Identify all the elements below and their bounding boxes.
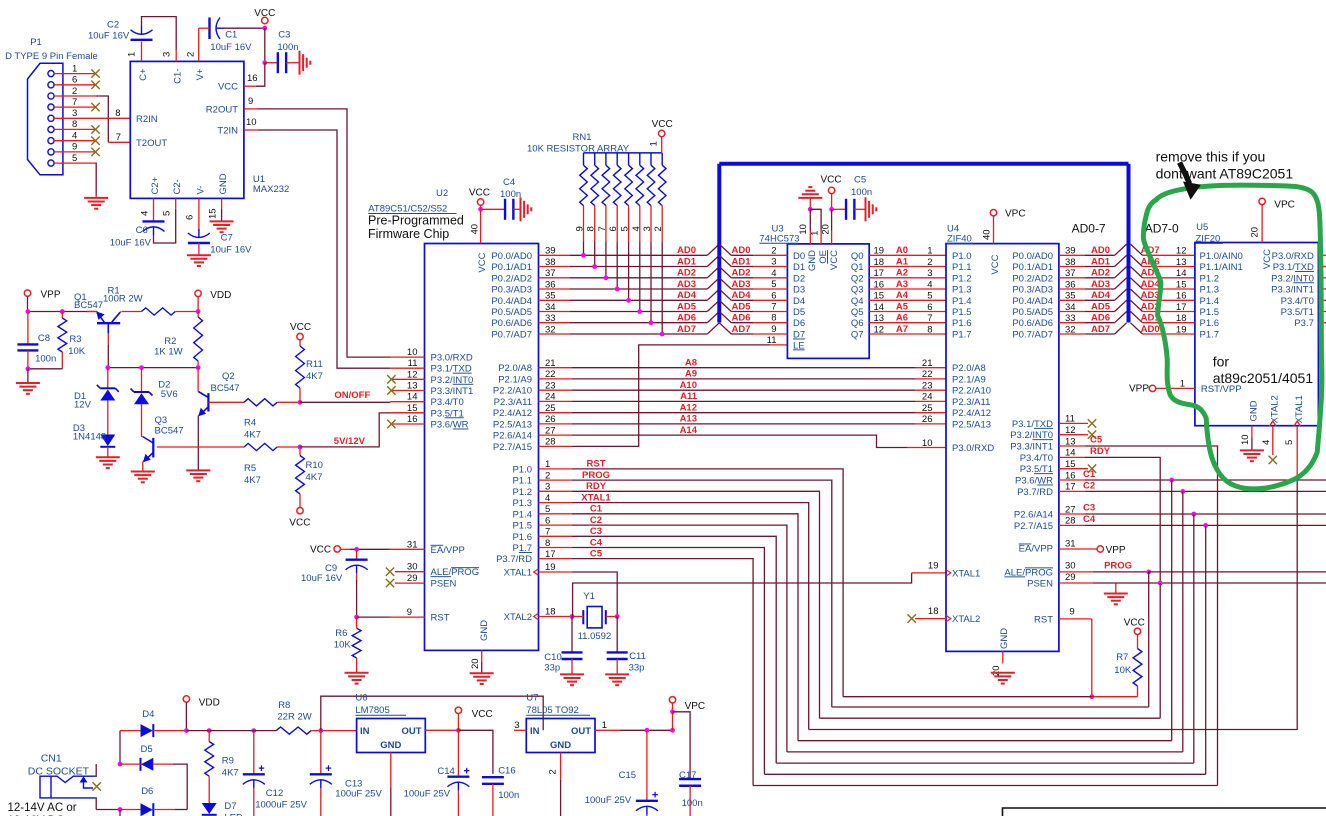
U3 top pin 10 GND with inverted ground bbox=[798, 187, 822, 198]
vertical below D6 node bbox=[119, 810, 121, 816]
svg-text:10K: 10K bbox=[68, 346, 86, 357]
svg-text:PSEN: PSEN bbox=[431, 579, 457, 590]
bus entry AD1 U4 side bbox=[1115, 255, 1127, 266]
U2 pin 28 P2.7/A15 bbox=[539, 445, 572, 447]
bus entry AD3 U4 side bbox=[1115, 278, 1127, 289]
svg-text:12V: 12V bbox=[74, 400, 92, 411]
wire VCC node to U1 pin16 bbox=[256, 63, 265, 86]
svg-text:6: 6 bbox=[927, 302, 932, 313]
junction D1 bbox=[105, 365, 110, 370]
wire OUT to C16 branch bbox=[458, 730, 493, 774]
svg-text:Q3: Q3 bbox=[155, 415, 168, 426]
resistor R9 4K7 bbox=[208, 731, 210, 742]
capacitor C2 10uF 16V bbox=[131, 39, 153, 41]
Q3 base wire + resistor R5 4K7 bbox=[157, 446, 244, 448]
junction crystal left bbox=[570, 614, 575, 619]
svg-text:Q7: Q7 bbox=[851, 330, 864, 341]
RN1 resistor leg pin 4 bbox=[639, 153, 641, 165]
svg-text:7: 7 bbox=[72, 97, 77, 108]
Q2 base wire + resistor R4 4K7 bbox=[208, 401, 244, 403]
svg-text:1: 1 bbox=[810, 231, 821, 236]
Q1 base wire down bbox=[107, 324, 109, 333]
svg-text:+: + bbox=[325, 763, 331, 775]
U3 Q2 pin 17 wire A2 to U4 pin 3 bbox=[869, 277, 946, 279]
U3 Q1 pin 18 wire A1 to U4 pin 2 bbox=[869, 266, 946, 268]
svg-text:17: 17 bbox=[874, 268, 885, 279]
svg-text:AD4: AD4 bbox=[677, 290, 697, 301]
no-connect X on CN1 bbox=[93, 782, 101, 790]
svg-text:35: 35 bbox=[545, 291, 556, 302]
bus entry AD0 U4 side bbox=[1115, 244, 1127, 255]
junction RN1 leg to AD wire bbox=[615, 287, 620, 292]
U3 Q5 pin 14 wire A5 to U4 pin 6 bbox=[869, 311, 946, 313]
svg-text:AD4: AD4 bbox=[732, 290, 752, 301]
latch U3 74HC573 box bbox=[787, 244, 869, 359]
net C2 bundle row bbox=[787, 751, 1183, 753]
wire AD6 to U5 pin 13 bbox=[1143, 266, 1195, 268]
U2 pin 29 PSEN bbox=[395, 582, 425, 584]
svg-text:VCC: VCC bbox=[469, 188, 490, 199]
bus entry AD5 left bbox=[707, 300, 719, 311]
svg-text:D5: D5 bbox=[793, 307, 805, 318]
junction C8 bottom bbox=[26, 366, 31, 371]
bus entry AD1 right bbox=[719, 255, 731, 266]
svg-text:P1.7: P1.7 bbox=[512, 543, 532, 554]
svg-text:+: + bbox=[258, 763, 264, 775]
microcontroller U2 AT89C51 box bbox=[425, 244, 539, 651]
AC node vertical D4-D5 bbox=[119, 731, 121, 765]
svg-text:C10: C10 bbox=[544, 652, 561, 663]
svg-text:100n: 100n bbox=[851, 187, 872, 198]
net C2 wire from U4 pin17 bbox=[1085, 490, 1326, 492]
black annotation arrow bbox=[1180, 163, 1190, 184]
bus entry AD5 right bbox=[719, 300, 731, 311]
svg-text:8: 8 bbox=[115, 108, 120, 119]
U1 pin 16 VCC bbox=[244, 85, 256, 87]
wire C1 left to V+ bbox=[199, 27, 210, 29]
svg-text:P1.6: P1.6 bbox=[952, 318, 972, 329]
U1 pin 1 C+ bbox=[141, 42, 143, 62]
svg-text:R2OUT: R2OUT bbox=[206, 104, 238, 115]
svg-text:P0.2/AD2: P0.2/AD2 bbox=[1012, 273, 1053, 284]
bus entry AD4 right bbox=[719, 289, 731, 300]
svg-text:4: 4 bbox=[927, 279, 932, 290]
bus entry AD6 right bbox=[719, 312, 731, 323]
U5 right stub bbox=[1318, 288, 1326, 290]
wire AD5 to U3 D5 pin 7 bbox=[731, 311, 753, 313]
net RST bundle row bbox=[843, 696, 1092, 698]
svg-text:12-14V AC or: 12-14V AC or bbox=[8, 802, 77, 814]
U1 pin 2 V+ bbox=[198, 28, 200, 61]
wire AD3 to U3 D3 pin 5 bbox=[731, 288, 753, 290]
junction RN1 leg to AD wire bbox=[660, 332, 665, 337]
svg-text:A0: A0 bbox=[896, 245, 908, 256]
U2 pin 10 bbox=[390, 356, 424, 358]
svg-text:P3.3/INT1: P3.3/INT1 bbox=[1010, 442, 1053, 453]
svg-text:7: 7 bbox=[927, 313, 932, 324]
svg-text:P3.4/T0: P3.4/T0 bbox=[1020, 453, 1053, 464]
U2 pin 30 ALE/PROG bbox=[395, 571, 425, 573]
svg-text:7: 7 bbox=[597, 226, 608, 231]
PROG wire to right edge bbox=[1149, 571, 1326, 573]
svg-text:VPC: VPC bbox=[1005, 209, 1026, 220]
svg-text:P3.1/TXD: P3.1/TXD bbox=[1012, 419, 1053, 430]
wire AD5 to bus bbox=[570, 311, 707, 313]
svg-text:P2.6/A14: P2.6/A14 bbox=[1014, 510, 1053, 521]
svg-text:P3.7/RD: P3.7/RD bbox=[496, 554, 532, 565]
svg-text:VCC: VCC bbox=[821, 175, 842, 186]
svg-text:P1.0/AIN0: P1.0/AIN0 bbox=[1200, 251, 1243, 262]
svg-text:100uF 25V: 100uF 25V bbox=[404, 789, 451, 800]
svg-text:AD7: AD7 bbox=[732, 324, 751, 335]
net PROG bundle row bbox=[832, 706, 1149, 708]
svg-text:P0.0/AD0: P0.0/AD0 bbox=[1012, 251, 1053, 262]
svg-text:4: 4 bbox=[1261, 440, 1272, 445]
U5 right stub bbox=[1318, 311, 1326, 313]
svg-text:5V/12V: 5V/12V bbox=[334, 436, 366, 447]
svg-text:for: for bbox=[1213, 354, 1230, 370]
svg-text:RDY: RDY bbox=[1090, 446, 1111, 457]
svg-text:XTAL1: XTAL1 bbox=[1294, 395, 1305, 423]
junction AC/D5 bbox=[118, 762, 123, 767]
svg-text:C5: C5 bbox=[854, 175, 866, 186]
svg-text:22: 22 bbox=[922, 369, 933, 380]
ground for P1 pin 5 bbox=[84, 198, 108, 209]
svg-text:VCC: VCC bbox=[829, 250, 840, 270]
bus entry AD3 left bbox=[707, 278, 719, 289]
U3 Q6 pin 13 wire A6 to U4 pin 7 bbox=[869, 322, 946, 324]
svg-text:OUT: OUT bbox=[571, 726, 591, 737]
svg-text:P2.6/A14: P2.6/A14 bbox=[493, 431, 532, 442]
terminal VPC above U5 bbox=[1259, 198, 1265, 204]
U2 pin 14 bbox=[390, 401, 424, 403]
svg-text:P2.2/A10: P2.2/A10 bbox=[952, 386, 991, 397]
svg-text:AD0-7: AD0-7 bbox=[1072, 222, 1106, 236]
junction R4/R11 bbox=[298, 400, 303, 405]
svg-text:P2.2/A10: P2.2/A10 bbox=[493, 386, 532, 397]
U5 right stub bbox=[1318, 254, 1326, 256]
ground under U5 bbox=[1240, 450, 1264, 461]
P1 pin 8 stub bbox=[54, 128, 96, 130]
svg-text:3: 3 bbox=[514, 720, 519, 731]
wire A15 from U2 to U3 LE bbox=[572, 345, 770, 447]
svg-text:AD0: AD0 bbox=[732, 245, 751, 256]
bus entry AD2 U4 side bbox=[1115, 267, 1127, 278]
svg-text:Q6: Q6 bbox=[851, 318, 864, 329]
svg-text:VCC: VCC bbox=[289, 517, 310, 528]
svg-text:17: 17 bbox=[1176, 302, 1187, 313]
U1 pin 3 C1- bbox=[175, 50, 177, 61]
svg-text:18: 18 bbox=[1176, 313, 1187, 324]
svg-text:P1.3: P1.3 bbox=[512, 498, 532, 509]
svg-text:AD2: AD2 bbox=[677, 268, 696, 279]
svg-text:P1.5: P1.5 bbox=[1200, 307, 1220, 318]
svg-text:12: 12 bbox=[407, 369, 418, 380]
svg-text:GND: GND bbox=[550, 740, 571, 751]
U3 Q7 pin 12 wire A7 to U4 pin 8 bbox=[869, 333, 946, 335]
svg-text:VCC: VCC bbox=[990, 254, 1001, 274]
svg-text:34: 34 bbox=[545, 302, 556, 313]
svg-text:6: 6 bbox=[72, 75, 77, 86]
svg-text:19: 19 bbox=[928, 561, 939, 572]
svg-text:C6: C6 bbox=[136, 225, 148, 236]
svg-text:AD7: AD7 bbox=[1091, 324, 1110, 335]
P1 pin 5 stub bbox=[54, 162, 96, 164]
Q2 emitter to ground bbox=[197, 416, 199, 471]
net C5 wire to lower bundle bbox=[572, 559, 753, 786]
svg-text:P1.4: P1.4 bbox=[512, 509, 532, 520]
svg-text:Firmware Chip: Firmware Chip bbox=[368, 227, 449, 241]
U2 pin 33 P0.6/AD6 bbox=[539, 322, 571, 324]
svg-text:VCC: VCC bbox=[472, 709, 493, 720]
net C4 wire to lower bundle bbox=[572, 548, 765, 775]
U3 top pin 20 VCC bbox=[828, 187, 834, 193]
wire CN1 bottom to D6 bbox=[96, 809, 120, 811]
svg-text:U2: U2 bbox=[436, 188, 448, 199]
U2 pin 35 P0.4/AD4 bbox=[539, 299, 571, 301]
svg-text:78L05 TO92: 78L05 TO92 bbox=[526, 705, 578, 716]
wire AD1 to U3 D1 pin 3 bbox=[731, 266, 753, 268]
svg-text:D4: D4 bbox=[142, 709, 154, 720]
svg-text:P1.6: P1.6 bbox=[1200, 318, 1220, 329]
net 5V/12V wire bbox=[300, 413, 390, 447]
svg-text:36: 36 bbox=[1065, 279, 1076, 290]
D4 out wire bbox=[153, 730, 186, 732]
U5 pin 20 VCC bbox=[1261, 205, 1263, 243]
svg-text:20: 20 bbox=[1250, 227, 1261, 238]
bus entry AD4 U5 side bbox=[1131, 278, 1143, 289]
svg-text:100n: 100n bbox=[35, 354, 56, 365]
svg-text:24: 24 bbox=[545, 392, 556, 403]
svg-text:P1.7: P1.7 bbox=[1200, 330, 1220, 341]
svg-text:+: + bbox=[464, 766, 470, 778]
U6 GND wire bbox=[390, 753, 392, 788]
junction R2 bottom bbox=[196, 365, 201, 370]
wire AD5 to U5 pin 14 bbox=[1143, 277, 1195, 279]
svg-text:P1.6: P1.6 bbox=[512, 532, 532, 543]
U7 pin 3 bbox=[514, 729, 526, 731]
svg-text:37: 37 bbox=[1065, 268, 1076, 279]
svg-text:R7: R7 bbox=[1116, 652, 1128, 663]
svg-text:P0.2/AD2: P0.2/AD2 bbox=[491, 273, 532, 284]
svg-text:15: 15 bbox=[1176, 279, 1187, 290]
svg-text:20: 20 bbox=[821, 224, 832, 235]
svg-text:D3: D3 bbox=[793, 285, 805, 296]
svg-text:C2+: C2+ bbox=[150, 176, 161, 194]
U2 pin 22 P2.1/A9 bbox=[539, 378, 572, 380]
svg-text:P3.0/RXD: P3.0/RXD bbox=[952, 443, 994, 454]
wire VCC down to C3 node bbox=[264, 28, 266, 63]
junction C12 bbox=[251, 728, 256, 733]
svg-text:1N4148: 1N4148 bbox=[73, 432, 106, 443]
junction RN1 leg to AD wire bbox=[637, 309, 642, 314]
svg-text:C16: C16 bbox=[498, 766, 515, 777]
RST wire down to R7 row bbox=[1091, 619, 1093, 697]
svg-text:37: 37 bbox=[545, 268, 556, 279]
no-connect X on P1 pin bbox=[91, 148, 99, 156]
P1 pin 9 stub bbox=[54, 151, 96, 153]
svg-text:R11: R11 bbox=[306, 359, 323, 370]
svg-text:VPP: VPP bbox=[1129, 384, 1149, 395]
svg-text:22R 2W: 22R 2W bbox=[277, 712, 311, 723]
svg-text:R4: R4 bbox=[244, 418, 256, 429]
wire to C3 bbox=[265, 62, 279, 64]
junction EA/C9 bbox=[354, 547, 359, 552]
U1 pin 6 V- bbox=[198, 198, 200, 231]
svg-text:BC547: BC547 bbox=[211, 383, 240, 394]
U3 Q0 pin 19 wire A0 to U4 pin 1 bbox=[869, 254, 946, 256]
bus entry AD5 U4 side bbox=[1115, 300, 1127, 311]
no-connect X on P1 pin bbox=[91, 81, 99, 89]
svg-text:LE: LE bbox=[793, 340, 805, 351]
svg-text:P3.5/T1: P3.5/T1 bbox=[1020, 464, 1053, 475]
ground under R6 bbox=[345, 673, 369, 684]
svg-text:20: 20 bbox=[470, 658, 481, 669]
wire AD3 to bus bbox=[570, 288, 707, 290]
svg-text:V-: V- bbox=[195, 186, 206, 195]
wire AD3 to U5 pin 16 bbox=[1143, 299, 1195, 301]
Q1 collector to R1 bbox=[120, 311, 121, 314]
junction RST bottom bbox=[1089, 694, 1094, 699]
svg-text:8: 8 bbox=[586, 226, 597, 231]
net C4 bundle row bbox=[764, 773, 1205, 775]
junction R8/U6 bbox=[318, 728, 323, 733]
svg-text:AD0: AD0 bbox=[1141, 324, 1160, 335]
wire U2 XTAL1 down to crystal right bbox=[572, 572, 617, 617]
junction RN1 leg to AD wire bbox=[592, 264, 597, 269]
svg-text:8: 8 bbox=[771, 313, 776, 324]
net RST wire to lower bundle bbox=[572, 469, 843, 697]
wire VCC to C4 bbox=[481, 208, 506, 210]
svg-text:14: 14 bbox=[407, 392, 418, 403]
net C3 wire from U4 pin27 bbox=[1085, 513, 1326, 515]
wire AD2 to bus bbox=[570, 277, 707, 279]
svg-text:P3.7: P3.7 bbox=[1294, 318, 1314, 329]
svg-text:4: 4 bbox=[631, 226, 642, 231]
bus entry AD7 U5 side bbox=[1131, 244, 1143, 255]
U2 pin 27 P2.6/A14 bbox=[539, 434, 572, 436]
wire D4 node to R8 bbox=[186, 730, 276, 732]
junction RN1 leg to AD wire bbox=[626, 298, 631, 303]
svg-text:9: 9 bbox=[248, 96, 253, 107]
svg-text:P0.6/AD6: P0.6/AD6 bbox=[491, 318, 532, 329]
svg-text:4: 4 bbox=[140, 211, 151, 216]
net PROG wire to lower bundle bbox=[572, 480, 832, 707]
svg-text:19: 19 bbox=[874, 246, 885, 257]
svg-text:remove this if you: remove this if you bbox=[1156, 148, 1266, 164]
svg-text:A14: A14 bbox=[680, 425, 698, 436]
P1 pin 7 stub bbox=[54, 106, 96, 108]
junction VPP/C8 bbox=[26, 309, 31, 314]
svg-text:P1.4: P1.4 bbox=[1200, 296, 1220, 307]
U2 pin 39 P0.0/AD0 bbox=[539, 254, 571, 256]
bus entry AD0 U5 side bbox=[1131, 323, 1143, 334]
junction C4 bbox=[1203, 523, 1208, 528]
net C1 bundle row bbox=[798, 740, 1172, 742]
no-connect X on P1 pin bbox=[91, 69, 99, 77]
svg-text:5: 5 bbox=[927, 291, 932, 302]
wire crystal-left up and right to U4 XTAL1 bbox=[573, 573, 912, 617]
svg-text:P2.5/A13: P2.5/A13 bbox=[952, 419, 991, 430]
svg-text:13: 13 bbox=[874, 313, 885, 324]
junction RN1 leg to AD wire bbox=[604, 275, 609, 280]
wire AD7 to U3 D7 pin 9 bbox=[731, 333, 753, 335]
svg-text:C2: C2 bbox=[107, 20, 119, 31]
svg-text:12: 12 bbox=[874, 324, 885, 335]
junction C1 bbox=[1169, 478, 1174, 483]
svg-text:C1: C1 bbox=[225, 30, 237, 41]
svg-text:A13: A13 bbox=[680, 414, 697, 425]
svg-text:10uF 16V: 10uF 16V bbox=[210, 244, 252, 255]
svg-text:P1.2: P1.2 bbox=[512, 487, 532, 498]
ground under C7 bbox=[187, 255, 211, 266]
bus entry AD7 U4 side bbox=[1115, 323, 1127, 334]
svg-text:P1.1: P1.1 bbox=[512, 476, 532, 487]
svg-text:33: 33 bbox=[545, 313, 556, 324]
svg-text:AD5: AD5 bbox=[1091, 301, 1111, 312]
U2 pin 20 GND bbox=[481, 650, 483, 662]
wire AD7 to U5 pin 12 bbox=[1143, 254, 1195, 256]
svg-text:P0.5/AD5: P0.5/AD5 bbox=[491, 307, 532, 318]
terminal VCC above U2 bbox=[477, 199, 483, 205]
svg-text:100n: 100n bbox=[500, 189, 521, 200]
Q3 emitter to ground bbox=[142, 462, 144, 472]
svg-text:A3: A3 bbox=[896, 279, 908, 290]
svg-text:11: 11 bbox=[408, 358, 418, 369]
svg-text:7: 7 bbox=[771, 302, 776, 313]
svg-text:R9: R9 bbox=[222, 755, 234, 766]
svg-text:P3.3/INT1: P3.3/INT1 bbox=[1271, 285, 1314, 296]
net C4 vertical bbox=[1205, 525, 1207, 774]
wire AD0 to U5 pin 19 bbox=[1143, 333, 1195, 335]
svg-text:P2.5/A13: P2.5/A13 bbox=[493, 419, 532, 430]
svg-text:GND: GND bbox=[1249, 400, 1260, 421]
svg-text:P3.5/T1: P3.5/T1 bbox=[431, 408, 464, 419]
U1 pin 5 C2- bbox=[175, 198, 177, 208]
svg-text:AD7-0: AD7-0 bbox=[1145, 222, 1179, 236]
svg-text:P2.4/A12: P2.4/A12 bbox=[952, 408, 991, 419]
bus entry AD3 U5 side bbox=[1131, 289, 1143, 300]
svg-text:P3.0/RXD: P3.0/RXD bbox=[431, 353, 473, 364]
svg-text:C5: C5 bbox=[1090, 434, 1103, 445]
svg-text:ON/OFF: ON/OFF bbox=[334, 390, 370, 401]
svg-text:10: 10 bbox=[246, 117, 257, 128]
RN1 resistor leg pin 9 bbox=[583, 153, 585, 165]
svg-text:10uF 16V: 10uF 16V bbox=[301, 573, 343, 584]
bus thick blue vertical left bbox=[717, 164, 721, 323]
svg-text:16: 16 bbox=[1176, 291, 1187, 302]
wire C8/R3 bottom join bbox=[28, 368, 62, 370]
svg-text:R2IN: R2IN bbox=[136, 114, 158, 125]
svg-text:D6: D6 bbox=[141, 786, 153, 797]
svg-text:Q2: Q2 bbox=[222, 371, 235, 382]
svg-text:1: 1 bbox=[927, 246, 932, 257]
transistor Q1 BC547 bbox=[96, 311, 120, 323]
svg-text:XTAL1: XTAL1 bbox=[581, 492, 611, 503]
svg-text:38: 38 bbox=[545, 257, 556, 268]
svg-text:21: 21 bbox=[922, 358, 933, 369]
bus entry AD7 left bbox=[707, 323, 719, 334]
capacitor C6 10uF 16V bbox=[143, 220, 165, 222]
net C2 vertical bbox=[1182, 491, 1184, 752]
bus entry AD1 U5 side bbox=[1131, 312, 1143, 323]
bus thick blue horizontal bbox=[719, 162, 1128, 166]
junction D6 bbox=[118, 807, 123, 812]
svg-text:34: 34 bbox=[1065, 302, 1076, 313]
svg-text:VPC: VPC bbox=[685, 701, 706, 712]
svg-text:2: 2 bbox=[72, 86, 77, 97]
U7 pin 1 OUT wire bbox=[595, 729, 621, 731]
